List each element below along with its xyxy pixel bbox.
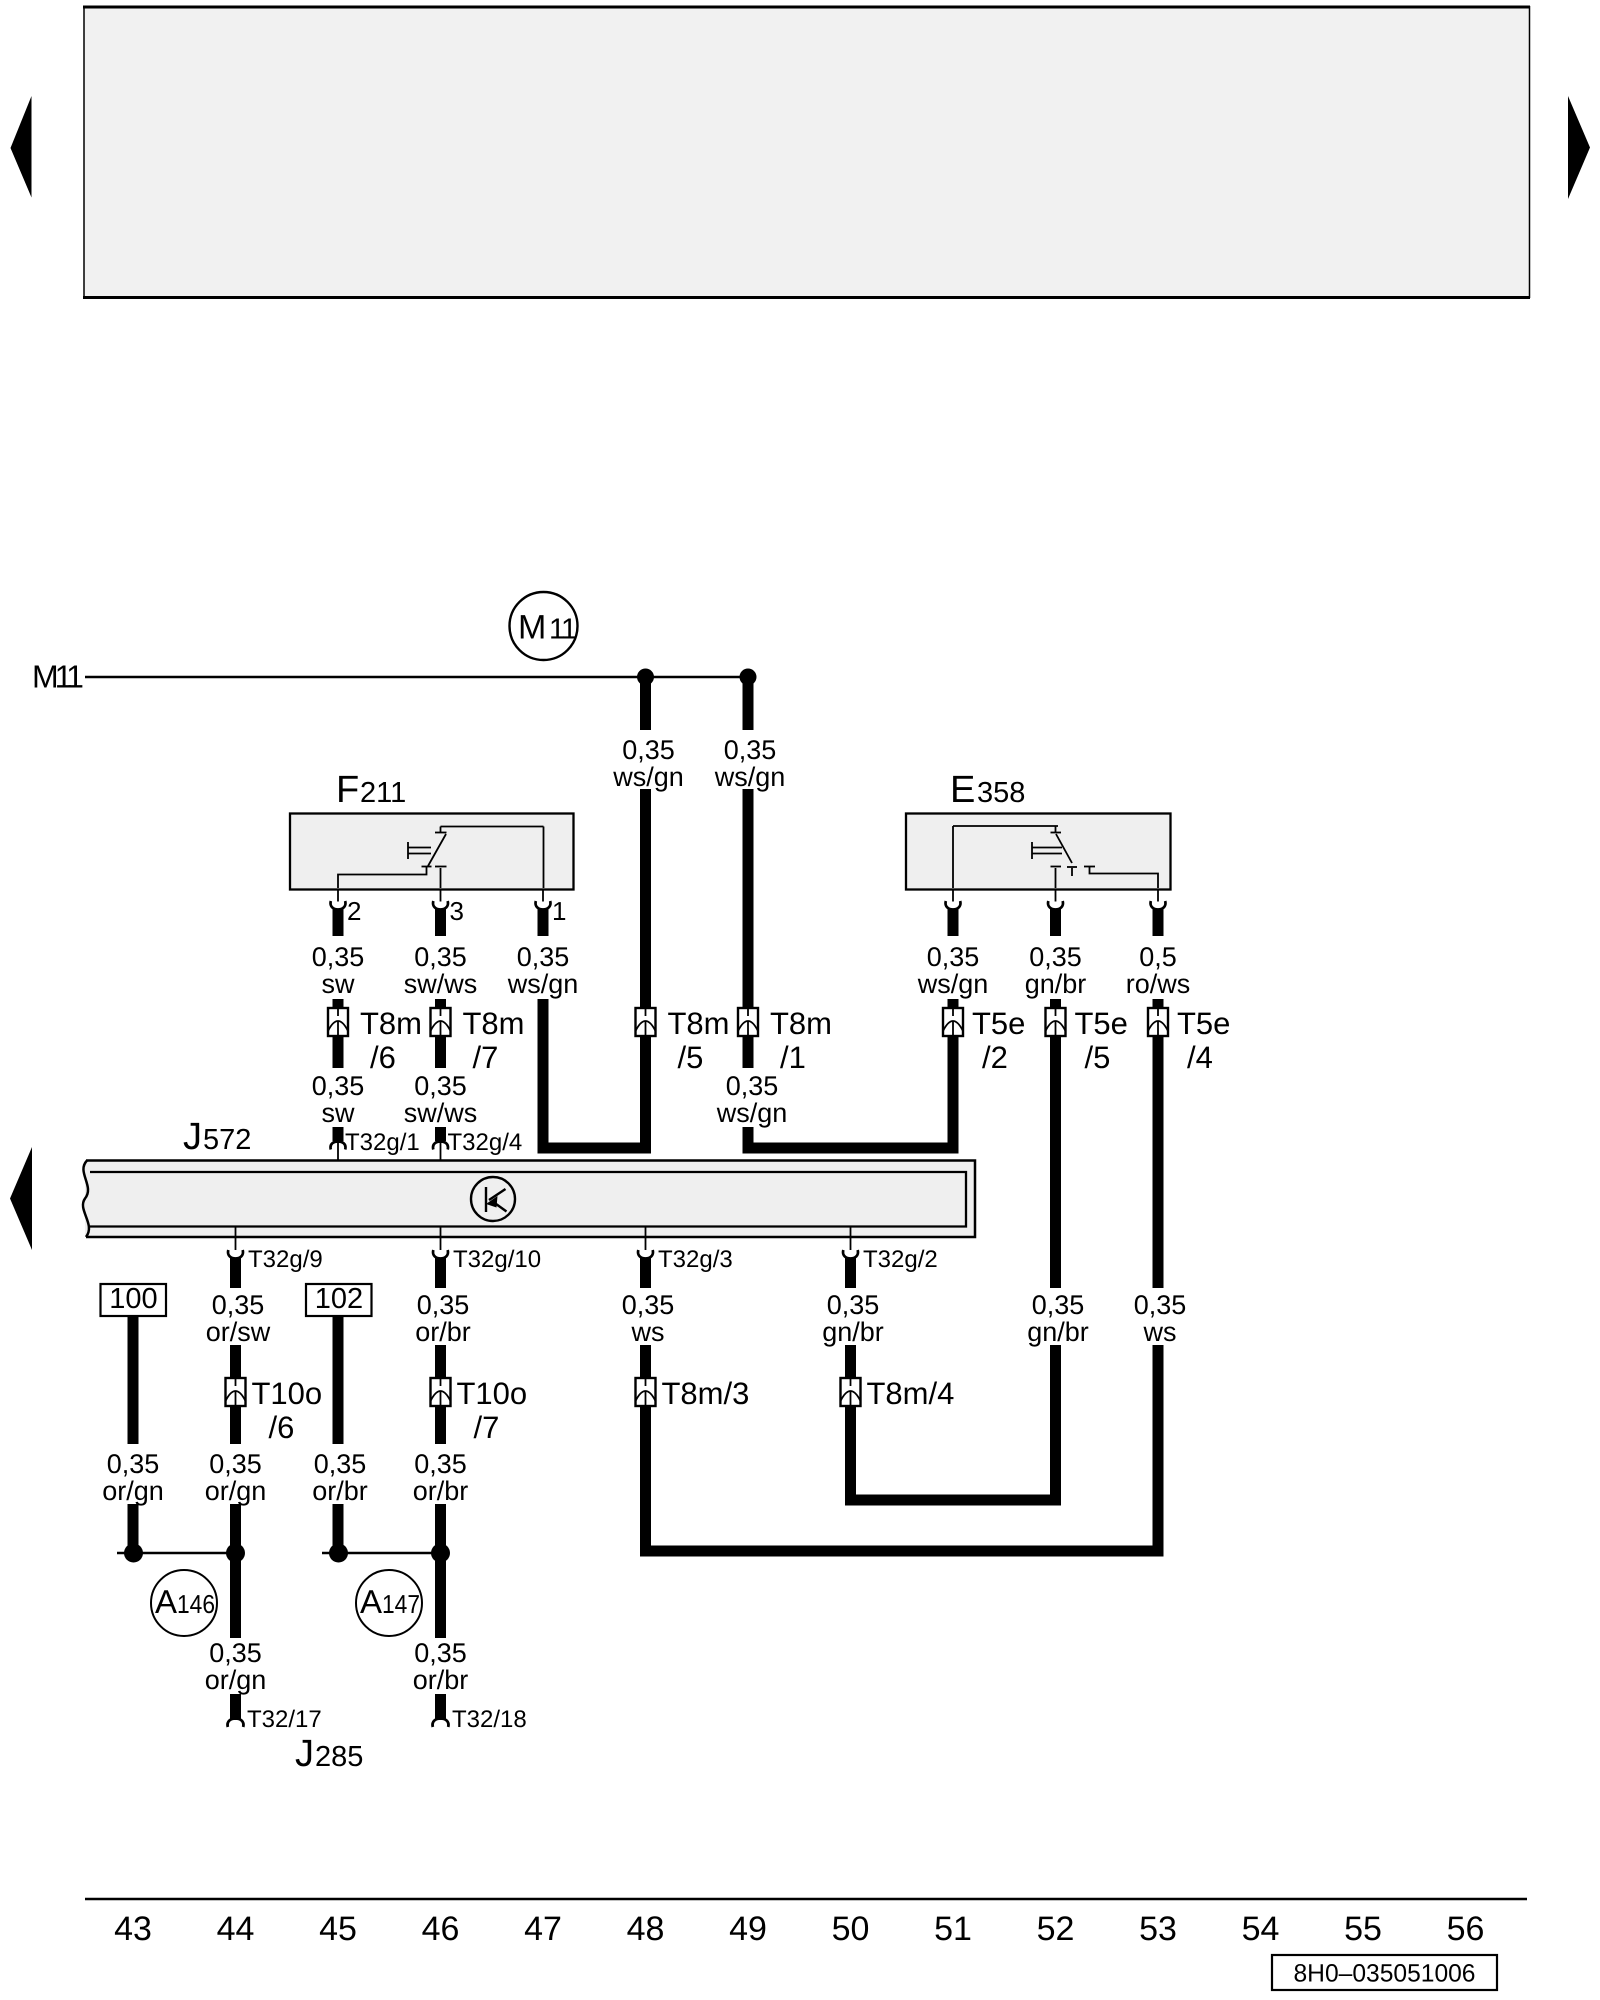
- svg-text:T10o: T10o: [457, 1376, 528, 1411]
- connector T8m/5: [636, 1006, 730, 1075]
- F211 pin 1 terminal: [536, 889, 567, 926]
- svg-text:46: 46: [422, 1910, 460, 1948]
- terminal T32g/4: [433, 1129, 522, 1172]
- connector T8m/6: [328, 1006, 422, 1075]
- junction dot col44: [226, 1544, 245, 1563]
- svg-text:0,35: 0,35: [212, 1290, 265, 1320]
- svg-text:0,35: 0,35: [209, 1638, 262, 1668]
- fuse box 100: [101, 1283, 167, 1316]
- svg-text:0,35: 0,35: [1032, 1290, 1085, 1320]
- svg-text:sw: sw: [322, 1098, 356, 1128]
- wire elbow col49 to col51: [743, 1036, 959, 1154]
- svg-text:J: J: [295, 1733, 314, 1775]
- svg-text:47: 47: [524, 1910, 562, 1948]
- svg-text:or/sw: or/sw: [206, 1317, 271, 1347]
- F211 internal contacts: [338, 827, 544, 889]
- drawing number box 8H0-035051006: [1272, 1955, 1497, 1990]
- svg-text:2: 2: [347, 896, 361, 926]
- E358 terminal gn/br: [1048, 889, 1063, 910]
- svg-text:ws/gn: ws/gn: [917, 969, 989, 999]
- svg-text:/7: /7: [474, 1410, 500, 1445]
- wire ws elbow col48 to col53: [640, 1546, 1164, 1557]
- wire M11 horizontal: [85, 676, 748, 679]
- svg-text:55: 55: [1344, 1910, 1382, 1948]
- junction line col45-col46: [322, 1552, 441, 1554]
- connector T5e/2: [943, 1006, 1025, 1075]
- svg-text:E: E: [950, 769, 975, 811]
- svg-text:211: 211: [360, 777, 406, 809]
- svg-text:/6: /6: [370, 1040, 396, 1075]
- terminal T32g/1: [331, 1129, 420, 1172]
- svg-text:ws: ws: [631, 1317, 665, 1347]
- wire or/br col46 to T32/18: [413, 1638, 469, 1720]
- svg-text:T8m: T8m: [360, 1006, 422, 1041]
- F211 pin 2 wire stub 0,35 sw: [312, 909, 365, 1010]
- svg-text:/7: /7: [473, 1040, 499, 1075]
- svg-text:100: 100: [109, 1283, 157, 1315]
- wire gn/br col52 from T5e/5: [1027, 1036, 1089, 1506]
- node A147: [356, 1570, 422, 1636]
- svg-text:0,35: 0,35: [517, 942, 570, 972]
- E358 wire stub 0,5 ro/ws: [1126, 909, 1191, 1010]
- label E358: [950, 769, 1025, 811]
- svg-text:ws/gn: ws/gn: [507, 969, 579, 999]
- svg-text:54: 54: [1242, 1910, 1280, 1948]
- label 0,35 ws/gn col48: [612, 735, 684, 792]
- svg-text:56: 56: [1447, 1910, 1485, 1948]
- terminal T32/18: [433, 1706, 527, 1733]
- svg-text:T8m: T8m: [463, 1006, 525, 1041]
- svg-text:0,35: 0,35: [927, 942, 980, 972]
- wire or/gn col44 to T32/17: [205, 1638, 267, 1720]
- wire gn/br col50 below T32g/2: [822, 1258, 884, 1378]
- wire or/gn col43: [102, 1316, 164, 1550]
- svg-text:T32g/1: T32g/1: [345, 1129, 420, 1156]
- connector T10o/7: [431, 1376, 528, 1445]
- wire ws/gn col49 down from M11: [743, 677, 754, 1008]
- svg-text:0,35: 0,35: [312, 1071, 365, 1101]
- terminal T32/17: [228, 1706, 322, 1733]
- svg-text:T10o: T10o: [252, 1376, 323, 1411]
- svg-text:T8m/4: T8m/4: [867, 1376, 955, 1411]
- svg-text:147: 147: [382, 1589, 420, 1619]
- svg-text:0,35: 0,35: [314, 1449, 367, 1479]
- wire elbow col47 to col48: [538, 1036, 652, 1154]
- junction dot col43: [124, 1544, 143, 1563]
- svg-text:sw: sw: [322, 969, 356, 999]
- svg-text:T32/18: T32/18: [452, 1706, 527, 1733]
- svg-text:A: A: [155, 1583, 177, 1620]
- thermal switch F211 box: [290, 814, 574, 890]
- svg-text:0,35: 0,35: [1029, 942, 1082, 972]
- F211 pin 1 wire 0,35 ws/gn down to elbow: [507, 909, 579, 1154]
- svg-text:146: 146: [177, 1589, 215, 1619]
- svg-text:A: A: [360, 1583, 382, 1620]
- nav arrow top-right: [1568, 96, 1590, 199]
- node A146: [151, 1570, 217, 1636]
- svg-text:0,35: 0,35: [209, 1449, 262, 1479]
- svg-text:0,35: 0,35: [724, 735, 777, 765]
- connector T5e/4: [1148, 1006, 1230, 1075]
- svg-text:0,35: 0,35: [622, 1290, 675, 1320]
- svg-text:49: 49: [729, 1910, 767, 1948]
- svg-text:or/br: or/br: [413, 1665, 469, 1695]
- wire ws col53 from T5e/4: [1134, 1036, 1187, 1557]
- terminal T32g/2: [843, 1227, 938, 1274]
- svg-text:0,35: 0,35: [1134, 1290, 1187, 1320]
- header panel: [83, 6, 1530, 298]
- svg-text:0,35: 0,35: [726, 1071, 779, 1101]
- label J572: [183, 1116, 251, 1158]
- svg-text:F: F: [336, 769, 359, 811]
- svg-text:T8m: T8m: [668, 1006, 730, 1041]
- svg-text:T5e: T5e: [1075, 1006, 1128, 1041]
- svg-text:52: 52: [1037, 1910, 1075, 1948]
- junction dot M11/48: [637, 669, 654, 686]
- svg-text:43: 43: [114, 1910, 152, 1948]
- E358 internal contacts: [953, 826, 1158, 888]
- wire or/br col45: [312, 1316, 368, 1550]
- junction dot col46: [431, 1544, 450, 1563]
- wire or/gn col44 lower: [205, 1406, 267, 1638]
- svg-text:0,35: 0,35: [417, 1290, 470, 1320]
- svg-text:ws/gn: ws/gn: [714, 762, 786, 792]
- bottom grid line: [85, 1898, 1527, 1901]
- svg-text:0,35: 0,35: [827, 1290, 880, 1320]
- wire ws/gn col49 below T8m/1: [716, 1036, 788, 1154]
- svg-text:/4: /4: [1187, 1040, 1213, 1075]
- svg-text:572: 572: [203, 1124, 251, 1156]
- F211 pin 2 terminal: [331, 889, 362, 926]
- wire or/br col46: [415, 1258, 471, 1378]
- svg-text:T32g/4: T32g/4: [448, 1129, 523, 1156]
- svg-text:T32g/9: T32g/9: [248, 1246, 323, 1273]
- wire ws col48 down to elbow: [640, 1406, 651, 1557]
- svg-text:50: 50: [832, 1910, 870, 1948]
- svg-text:gn/br: gn/br: [822, 1317, 884, 1347]
- svg-text:T5e: T5e: [1177, 1006, 1230, 1041]
- svg-text:8H0–035051006: 8H0–035051006: [1294, 1960, 1476, 1988]
- nav arrow top-left: [11, 96, 32, 198]
- svg-text:0,5: 0,5: [1139, 942, 1177, 972]
- terminal T32g/10: [433, 1227, 541, 1274]
- svg-text:T32g/3: T32g/3: [658, 1246, 733, 1273]
- svg-text:0,35: 0,35: [414, 1449, 467, 1479]
- svg-text:sw/ws: sw/ws: [404, 1098, 478, 1128]
- svg-text:/5: /5: [678, 1040, 704, 1075]
- motor M11 circle: [510, 592, 578, 660]
- svg-text:ws: ws: [1143, 1317, 1177, 1347]
- connector T8m/3: [636, 1376, 750, 1411]
- svg-text:0,35: 0,35: [414, 1071, 467, 1101]
- svg-text:0,35: 0,35: [622, 735, 675, 765]
- svg-text:/6: /6: [269, 1410, 295, 1445]
- svg-text:358: 358: [977, 777, 1025, 809]
- junction line col43-col44: [117, 1552, 236, 1554]
- svg-text:T8m: T8m: [770, 1006, 832, 1041]
- connector T8m/7: [431, 1006, 525, 1075]
- E358 terminal ro/ws: [1151, 889, 1166, 910]
- svg-text:44: 44: [217, 1910, 255, 1948]
- label 0,35 ws/gn col49: [714, 735, 786, 792]
- svg-text:J: J: [183, 1116, 202, 1158]
- E358 wire stub 0,35 gn/br: [1025, 909, 1087, 1010]
- svg-text:/1: /1: [780, 1040, 806, 1075]
- wire ws col48 below T32g/3: [622, 1258, 675, 1378]
- wire gn/br col50 down to elbow: [845, 1406, 856, 1506]
- svg-text:gn/br: gn/br: [1025, 969, 1087, 999]
- F211 pin 3 wire stub 0,35 sw/ws: [404, 909, 478, 1010]
- svg-text:/5: /5: [1085, 1040, 1111, 1075]
- svg-text:or/br: or/br: [312, 1476, 368, 1506]
- svg-text:102: 102: [315, 1283, 363, 1315]
- svg-text:53: 53: [1139, 1910, 1177, 1948]
- connector T5e/5: [1046, 1006, 1128, 1075]
- control module J572 box: [83, 1161, 975, 1238]
- svg-text:or/gn: or/gn: [205, 1476, 267, 1506]
- svg-text:0,35: 0,35: [107, 1449, 160, 1479]
- svg-text:45: 45: [319, 1910, 357, 1948]
- wire sw col45 below T8m/6: [312, 1036, 365, 1141]
- svg-text:or/br: or/br: [413, 1476, 469, 1506]
- label J285: [295, 1733, 363, 1775]
- connector T8m/1: [738, 1006, 832, 1075]
- junction dot col45: [329, 1544, 348, 1563]
- svg-text:T32g/2: T32g/2: [863, 1246, 938, 1273]
- svg-text:1: 1: [552, 896, 566, 926]
- wire or/sw col44: [206, 1258, 271, 1378]
- E358 wire stub 0,35 ws/gn: [917, 909, 989, 1010]
- J572 K symbol: [471, 1177, 515, 1221]
- svg-text:ws/gn: ws/gn: [716, 1098, 788, 1128]
- svg-text:1: 1: [561, 614, 577, 646]
- svg-text:T32g/10: T32g/10: [453, 1246, 541, 1273]
- grid numbers 43-56: [114, 1910, 1484, 1948]
- svg-text:T5e: T5e: [972, 1006, 1025, 1041]
- svg-text:M: M: [518, 609, 546, 647]
- svg-text:gn/br: gn/br: [1027, 1317, 1089, 1347]
- svg-text:3: 3: [450, 896, 464, 926]
- svg-text:48: 48: [627, 1910, 665, 1948]
- svg-text:or/br: or/br: [415, 1317, 471, 1347]
- fuse box 102: [306, 1283, 372, 1316]
- E358 terminal ws/gn: [946, 889, 961, 910]
- svg-text:0,35: 0,35: [414, 1638, 467, 1668]
- svg-text:M11: M11: [32, 659, 83, 695]
- terminal T32g/3: [638, 1227, 733, 1274]
- svg-text:0,35: 0,35: [312, 942, 365, 972]
- svg-text:0,35: 0,35: [414, 942, 467, 972]
- svg-text:or/gn: or/gn: [205, 1665, 267, 1695]
- wire or/br col46 lower: [413, 1406, 469, 1638]
- node M11 label: [32, 659, 83, 695]
- svg-text:or/gn: or/gn: [102, 1476, 164, 1506]
- svg-text:285: 285: [315, 1741, 363, 1773]
- svg-text:51: 51: [934, 1910, 972, 1948]
- junction dot M11/49: [740, 669, 757, 686]
- svg-text:ws/gn: ws/gn: [612, 762, 684, 792]
- svg-text:ro/ws: ro/ws: [1126, 969, 1191, 999]
- svg-text:/2: /2: [982, 1040, 1008, 1075]
- F211 pin 3 terminal: [433, 889, 464, 926]
- label F211: [336, 769, 406, 811]
- connector T10o/6: [226, 1376, 323, 1445]
- wire gn/br elbow col50 to col52: [845, 1495, 1061, 1506]
- wire ws/gn col48 down from M11: [640, 677, 651, 1008]
- terminal T32g/9: [228, 1227, 323, 1274]
- svg-text:T8m/3: T8m/3: [662, 1376, 750, 1411]
- nav arrow middle-left: [10, 1147, 32, 1250]
- svg-text:T32/17: T32/17: [247, 1706, 322, 1733]
- connector T8m/4: [841, 1376, 955, 1411]
- svg-text:sw/ws: sw/ws: [404, 969, 478, 999]
- wire sw/ws col46 below T8m/7: [404, 1036, 478, 1141]
- switch E358 box: [906, 814, 1171, 890]
